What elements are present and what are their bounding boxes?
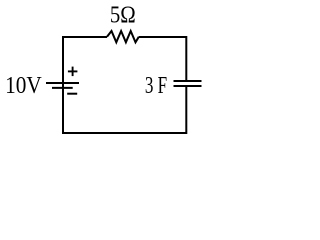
svg-text:3 F: 3 F	[145, 72, 167, 99]
svg-text:5Ω: 5Ω	[110, 2, 136, 29]
svg-text:10V: 10V	[5, 72, 42, 99]
